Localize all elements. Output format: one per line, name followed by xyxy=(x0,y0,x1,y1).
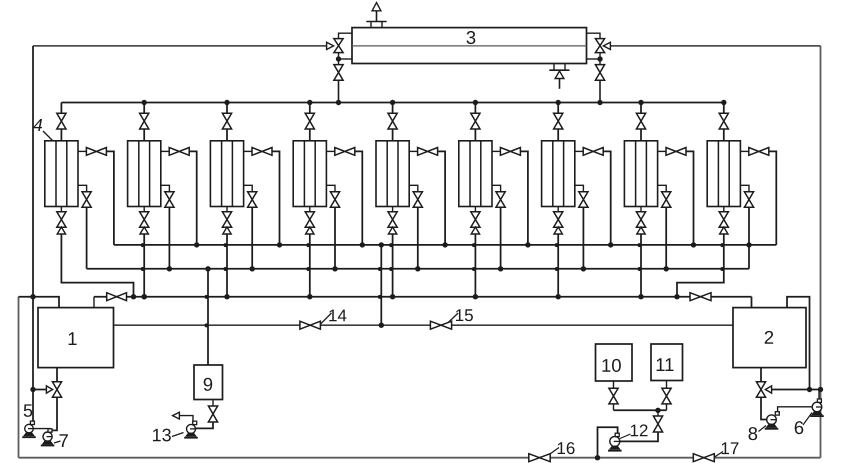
node bus1 filter8 xyxy=(691,242,696,247)
node bus1 filter6 xyxy=(525,242,530,247)
wire filter2 drain stub xyxy=(143,207,145,212)
wire right chain stub to vessel xyxy=(587,58,601,60)
valve filter4 upper right xyxy=(335,148,355,156)
valve filter9 inlet xyxy=(719,113,728,129)
wire left chain lower stub xyxy=(338,53,340,65)
valve filter4 lower right xyxy=(330,192,339,208)
wire filter5 drain stub xyxy=(392,207,394,212)
junction mark filter2 bus1 xyxy=(141,243,145,247)
valve 16 xyxy=(529,454,550,462)
junction mark link bus2 xyxy=(378,267,382,271)
filter column 4 (item 4) xyxy=(293,141,326,207)
valve 12 xyxy=(653,416,662,432)
wire box9 valve to pump13 xyxy=(196,422,213,428)
valve filter1 drain xyxy=(57,212,66,227)
node left border tap xyxy=(30,387,35,392)
filter4 internal plates xyxy=(304,141,315,207)
wire filter8 lower right branch xyxy=(658,185,667,191)
flow arrow filter7 drain xyxy=(554,227,562,234)
tank 1 xyxy=(38,308,114,368)
wire filter3 drain run xyxy=(226,234,228,297)
valve filter1 lower right xyxy=(82,192,91,208)
filter3 internal plates xyxy=(222,141,233,207)
wire filter4 upper right branch xyxy=(326,150,334,152)
wire right chain upper stub xyxy=(587,33,601,38)
flow arrow filter2 drain xyxy=(140,227,148,234)
junction mark filter9 bus2 xyxy=(720,267,724,271)
junction mark filter7 bus2 xyxy=(555,267,559,271)
pump 6 xyxy=(812,402,822,412)
wire pump5 outlet xyxy=(33,428,50,431)
wire filter6 lower right drop xyxy=(500,207,502,268)
filter column 5 (item 4) xyxy=(376,141,409,207)
leader line label 4 xyxy=(43,131,64,152)
node bus3 filter4 xyxy=(307,294,312,299)
wire filter4 top stub2 xyxy=(309,129,311,141)
label 12 xyxy=(631,424,648,436)
wire right chain lower stub xyxy=(599,53,601,65)
valve filter3 lower right xyxy=(248,192,257,208)
wire pump6 inlet stub xyxy=(818,390,820,399)
wire filter7 lower right drop xyxy=(582,207,584,268)
leader line label 6 xyxy=(803,413,812,426)
wire drain crossbar xyxy=(549,69,569,71)
flow arrow filter5 drain xyxy=(388,227,396,234)
tank 2 xyxy=(733,308,806,368)
valve filter7 drain xyxy=(554,212,563,227)
wire drain stub a xyxy=(553,64,555,71)
wire vent stub a xyxy=(370,22,372,28)
valve box9 outlet xyxy=(208,406,217,422)
wire left chain to header xyxy=(338,80,340,102)
wire junction to valve12 xyxy=(657,410,659,416)
wire filter2 lower right branch xyxy=(161,185,170,191)
wire filter5 top stub xyxy=(392,103,394,114)
leader line label 15 xyxy=(447,313,458,323)
wire filter6 lower right branch xyxy=(492,185,501,191)
wire filter1 top stub xyxy=(60,103,62,114)
wire filter9 lower right drop xyxy=(748,207,750,268)
junction mark filter5 bus1 xyxy=(389,243,393,247)
wire left chain stub to vessel xyxy=(339,58,353,60)
wire filter1 drain run xyxy=(61,234,133,297)
node header filter8 xyxy=(638,100,643,105)
wire vent crossbar xyxy=(366,21,386,23)
junction mark filter9 bus1 xyxy=(720,243,724,247)
valve 14 xyxy=(300,321,321,329)
wire vent stub b xyxy=(381,22,383,28)
wire filter8 upper right drop xyxy=(686,151,694,245)
node bus1 filter5 xyxy=(442,242,447,247)
wire filter1 upper right drop xyxy=(106,151,114,245)
wire filter9 top stub xyxy=(723,103,725,114)
valve vessel3 right xyxy=(595,39,604,53)
flow arrow into left valve xyxy=(327,42,334,49)
vent arrow xyxy=(372,3,381,11)
valve filter5 drain xyxy=(388,212,397,227)
label 14 xyxy=(329,310,346,322)
flow arrow into right valve xyxy=(603,42,610,49)
wire filter1 top stub2 xyxy=(60,129,62,141)
wire filter3 drain stub xyxy=(226,207,228,212)
wire filter3 upper right drop xyxy=(272,151,280,245)
wire filter4 lower right drop xyxy=(334,207,336,268)
leader line label 13 xyxy=(172,433,184,437)
node connector junction xyxy=(655,408,660,413)
wire filter4 upper right drop xyxy=(355,151,363,245)
wire tank1 inlet segment xyxy=(19,297,60,308)
valve filter2 inlet xyxy=(140,113,149,129)
node bus1 filter4 xyxy=(360,242,365,247)
valve filter6 drain xyxy=(471,212,480,227)
wire filter3 upper right branch xyxy=(244,150,252,152)
valve box11 outlet xyxy=(662,388,671,404)
node bus1 bus2-riser crossing xyxy=(746,242,751,247)
junction mark filter5 bus2 xyxy=(389,267,393,271)
wire bus2 to box9 riser xyxy=(207,269,209,365)
filter1 internal plates xyxy=(56,141,67,207)
node bus3 filter2-corner xyxy=(142,294,147,299)
filter column 2 (item 4) xyxy=(128,141,161,207)
label 11 xyxy=(657,358,674,371)
wire filter2 upper right branch xyxy=(161,150,169,152)
filter column 8 (item 4) xyxy=(624,141,657,207)
node header filter6 xyxy=(473,100,478,105)
valve filter6 upper right xyxy=(500,148,520,156)
node bottom line pump12 tap xyxy=(595,455,600,460)
valve box10 outlet xyxy=(609,388,618,404)
valve filter2 drain xyxy=(140,212,149,227)
filter8 internal plates xyxy=(636,141,647,207)
node bus1 filter2 xyxy=(194,242,199,247)
wire filter8 upper right branch xyxy=(658,150,666,152)
junction mark filter4 bus1 xyxy=(306,243,310,247)
node bus1 filter3 xyxy=(277,242,282,247)
wire pump line y325 xyxy=(114,324,734,326)
valve filter8 upper right xyxy=(666,148,686,156)
node bus3 filter2 xyxy=(142,294,147,299)
filter2 internal plates xyxy=(139,141,150,207)
node header filter4 xyxy=(307,100,312,105)
flow arrow filter3 drain xyxy=(223,227,231,234)
label 1 xyxy=(69,332,77,345)
wire filter2 upper right drop xyxy=(189,151,197,245)
wire filter7 upper right drop xyxy=(603,151,611,245)
node vessel3 left drain xyxy=(336,56,341,61)
wire filter1 lower right branch xyxy=(78,185,87,191)
valve filter7 lower right xyxy=(579,192,588,208)
wire tank1 valve left line xyxy=(33,389,46,391)
node header filter2 xyxy=(142,100,147,105)
wire tank2 outlet xyxy=(760,368,762,382)
junction mark filter3 bus1 xyxy=(224,243,228,247)
valve filter3 upper right xyxy=(252,148,272,156)
label 6 xyxy=(795,421,804,434)
wire filter9 upper right branch xyxy=(740,150,748,152)
label 16 xyxy=(558,442,575,454)
wire pump12 inlet bracket xyxy=(598,427,618,458)
filter7 internal plates xyxy=(553,141,564,207)
node bus3 filter3 xyxy=(224,294,229,299)
node bus3 filter7 xyxy=(556,294,561,299)
node nozzle line tap xyxy=(807,387,812,392)
wire filter6 top stub2 xyxy=(474,129,476,141)
leader line label 14 xyxy=(320,313,332,325)
junction mark filter3 bus2 xyxy=(224,267,228,271)
filter column 9 (item 4) xyxy=(707,141,740,207)
node bus2 filter8 xyxy=(664,266,669,271)
wire drain arrow stem xyxy=(559,79,561,89)
wire filter4 top stub xyxy=(309,103,311,114)
wire left chain upper stub xyxy=(339,33,353,38)
valve tank1 inlet xyxy=(107,293,127,301)
wire filter8 lower right drop xyxy=(665,207,667,268)
wire filter5 top stub2 xyxy=(392,129,394,141)
wire filter2 top stub2 xyxy=(143,129,145,141)
wire filter1 upper right branch xyxy=(78,150,86,152)
valve filter2 upper right xyxy=(169,148,189,156)
valve filter2 lower right xyxy=(165,192,174,208)
apparatus 11 xyxy=(651,344,683,381)
wire filter4 drain stub xyxy=(309,207,311,212)
wire vessel3 left feed line xyxy=(33,45,327,47)
filter9 internal plates xyxy=(718,141,729,207)
valve filter7 upper right xyxy=(583,148,603,156)
wire top header xyxy=(61,102,723,104)
junction mark box9 line15 xyxy=(205,323,209,327)
valve vessel3 left lower xyxy=(334,65,343,81)
node bus2 filter7 xyxy=(581,266,586,271)
valve filter3 drain xyxy=(222,212,231,227)
wire vessel3 right feed line xyxy=(610,45,820,47)
apparatus 10 xyxy=(596,344,633,381)
leader line label 17 xyxy=(715,452,724,458)
node header filter7 xyxy=(556,100,561,105)
junction mark filter2 bus2 xyxy=(141,267,145,271)
valve filter9 lower right xyxy=(744,192,753,208)
wire tank2 nozzle xyxy=(787,297,810,390)
wire filter2 top stub xyxy=(143,103,145,114)
drain arrow xyxy=(555,71,564,79)
junction mark filter8 bus2 xyxy=(638,267,642,271)
vessel 3 xyxy=(352,28,587,64)
node header filter9 xyxy=(721,100,726,105)
wire filter8 drain stub xyxy=(640,207,642,212)
wire bus upper (inlet manifold) xyxy=(114,244,776,246)
wire bus1 to pump line link xyxy=(380,245,382,325)
wire filter9 lower right branch xyxy=(740,185,749,191)
filter column 7 (item 4) xyxy=(542,141,575,207)
node vessel3 right drain xyxy=(597,56,602,61)
wire filter5 lower right drop xyxy=(417,207,419,268)
valve vessel3 right lower xyxy=(595,65,604,81)
valve filter9 drain xyxy=(719,212,728,227)
wire tank1 riser xyxy=(93,297,95,308)
valve filter7 inlet xyxy=(554,113,563,129)
label 2 xyxy=(765,331,773,344)
valve tank2 inlet xyxy=(690,293,711,301)
pump 8 xyxy=(767,415,777,425)
three-way valve tank2 side port xyxy=(765,386,771,393)
valve filter5 inlet xyxy=(388,113,397,129)
wire tank2 valve down to pump8 xyxy=(761,397,767,419)
wire filter4 drain run xyxy=(309,234,311,297)
flow arrow filter8 drain xyxy=(637,227,645,234)
node bus2 filter6 xyxy=(498,266,503,271)
wire filter2 lower right drop xyxy=(168,207,170,268)
wire filter6 drain run xyxy=(474,234,476,297)
apparatus 9 xyxy=(194,365,223,400)
wire filter8 top stub2 xyxy=(640,129,642,141)
node header vessel3 left xyxy=(336,100,341,105)
wire filter7 lower right branch xyxy=(575,185,584,191)
wire tank1 valve down to pump7 xyxy=(52,397,57,430)
wire pump13 inlet arrow line xyxy=(179,416,193,422)
flow arrow filter6 drain xyxy=(471,227,479,234)
junction mark link bus3 xyxy=(378,295,382,299)
wire filter4 lower right branch xyxy=(326,185,335,191)
wire box9 outlet xyxy=(212,400,214,407)
filter column 3 (item 4) xyxy=(210,141,243,207)
leader line label 8 xyxy=(759,426,767,432)
flow arrow filter1 drain xyxy=(57,227,65,234)
node header filter5 xyxy=(390,100,395,105)
three-way valve tank1 outlet xyxy=(52,382,61,398)
wire filter6 top stub xyxy=(474,103,476,114)
wire filter8 drain run xyxy=(640,234,642,297)
wire filter8 top stub xyxy=(640,103,642,114)
junction mark filter7 bus1 xyxy=(555,243,559,247)
label 4 xyxy=(33,119,42,131)
wire right chain to header xyxy=(599,80,601,102)
wire box11 valve drop xyxy=(666,404,668,410)
valve filter6 inlet xyxy=(471,113,480,129)
wire filter9 top stub2 xyxy=(723,129,725,141)
node pump-line link xyxy=(379,323,384,328)
node bus3 filter5 xyxy=(390,294,395,299)
wire filter5 upper right branch xyxy=(409,150,417,152)
junction mark filter6 bus1 xyxy=(472,243,476,247)
wire filter9 upper right drop xyxy=(769,151,777,245)
wire filter7 top stub xyxy=(557,103,559,114)
valve 17 xyxy=(693,454,714,462)
node header filter3 xyxy=(224,100,229,105)
wire filter2 drain run xyxy=(143,234,145,297)
label 13 xyxy=(153,429,171,442)
wire filter5 upper right drop xyxy=(438,151,446,245)
wire bus middle (rinse manifold) xyxy=(87,268,749,270)
label 7 xyxy=(59,434,67,447)
filter6 internal plates xyxy=(470,141,481,207)
wire right border xyxy=(820,46,822,458)
wire tank2 inlet riser xyxy=(751,297,753,308)
valve vessel3 left xyxy=(334,39,343,53)
valve filter1 upper right xyxy=(86,148,106,156)
wire filter7 drain stub xyxy=(557,207,559,212)
wire filter3 top stub2 xyxy=(226,129,228,141)
node bus1 filter7 xyxy=(608,242,613,247)
wire left border upper xyxy=(32,46,34,421)
node bus2 filter4 xyxy=(332,266,337,271)
label 8 xyxy=(749,427,758,440)
vessel3 internal line xyxy=(352,45,587,47)
wire filter3 lower right drop xyxy=(251,207,253,268)
wire filter9 drain run xyxy=(677,234,724,297)
valve filter8 drain xyxy=(636,212,645,227)
wire filter7 top stub2 xyxy=(557,129,559,141)
wire filter7 upper right branch xyxy=(575,150,583,152)
flow arrow filter4 drain xyxy=(306,227,314,234)
wire filter1 drain stub xyxy=(60,207,62,212)
node left border junction xyxy=(30,294,35,299)
node bus2 filter2 xyxy=(167,266,172,271)
label 3 xyxy=(467,31,476,44)
filter column 6 (item 4) xyxy=(459,141,492,207)
junction mark filter6 bus2 xyxy=(472,267,476,271)
wire filter6 upper right drop xyxy=(520,151,528,245)
wire bottom loop line xyxy=(19,457,821,459)
valve filter6 lower right xyxy=(496,192,505,208)
valve filter3 inlet xyxy=(222,113,231,129)
node right border tap xyxy=(818,387,823,392)
wire pump6 to pump8 xyxy=(778,407,812,414)
leader line label 16 xyxy=(547,448,560,457)
wire tank2 valve right line xyxy=(772,389,821,391)
label 15 xyxy=(456,309,473,321)
node bus1 link xyxy=(379,242,384,247)
valve filter1 inlet xyxy=(57,113,66,129)
wire filter1 lower right drop xyxy=(86,207,88,268)
wire drain stub b xyxy=(564,64,566,71)
wire filter7 drain run xyxy=(557,234,559,297)
flow arrow pump13 inlet xyxy=(173,412,180,419)
wire 10-11 connector xyxy=(614,409,667,411)
label 9 xyxy=(204,378,213,391)
flow arrow filter9 drain xyxy=(720,227,728,234)
leader line label 7 xyxy=(54,441,61,443)
label 17 xyxy=(722,442,739,454)
label 10 xyxy=(602,359,620,372)
pump 13 xyxy=(187,424,196,433)
valve 15 xyxy=(430,321,451,329)
wire left border lower loop xyxy=(18,297,20,458)
wire filter6 upper right branch xyxy=(492,150,500,152)
node bus3 filter9 xyxy=(674,294,679,299)
valve filter5 upper right xyxy=(418,148,438,156)
wire filter5 lower right branch xyxy=(409,185,418,191)
wire filter3 top stub xyxy=(226,103,228,114)
node header vessel3 right xyxy=(597,100,602,105)
node bus3 filter8 xyxy=(638,294,643,299)
junction mark box9 bus3 xyxy=(205,295,209,299)
wire vent stem xyxy=(376,11,378,22)
valve filter5 lower right xyxy=(413,192,422,208)
three-way valve tank2 outlet xyxy=(756,382,765,398)
junction mark filter8 bus1 xyxy=(638,243,642,247)
node bus2 box9 xyxy=(205,266,210,271)
wire tank1 outlet xyxy=(56,368,58,382)
valve filter8 lower right xyxy=(662,192,671,208)
pump 12 xyxy=(610,436,620,446)
wire filter3 lower right branch xyxy=(244,185,253,191)
valve filter9 upper right xyxy=(749,148,769,156)
wire box10 outlet xyxy=(613,381,615,388)
wire box10 valve drop xyxy=(613,404,615,410)
filter5 internal plates xyxy=(387,141,398,207)
junction mark filter4 bus2 xyxy=(306,267,310,271)
wire valve12 to pump12 xyxy=(620,432,658,441)
node bus2 filter5 xyxy=(415,266,420,271)
